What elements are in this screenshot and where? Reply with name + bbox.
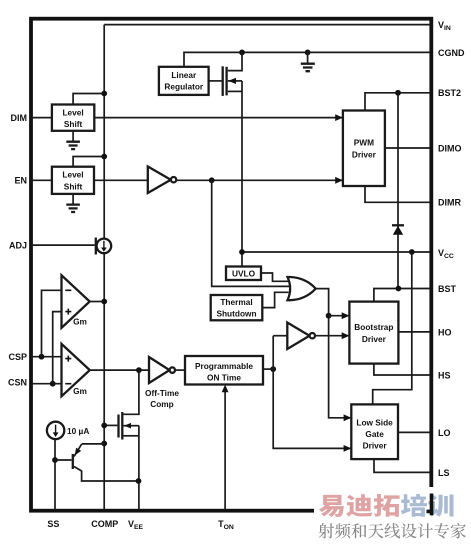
wire CSN	[31, 383, 62, 385]
block Low Side Gate Driver	[351, 404, 398, 459]
wire CGND line	[184, 52, 430, 67]
block U1 Linear Regulator	[159, 67, 209, 95]
arrowhead LowSide input 2	[344, 445, 352, 452]
svg-text:ON Time: ON Time	[207, 373, 241, 383]
watermark slogan	[319, 523, 466, 539]
transistor M2	[104, 370, 139, 509]
svg-text:Linear: Linear	[171, 70, 197, 80]
wire HS	[374, 364, 430, 375]
wire PON output	[263, 368, 273, 370]
svg-text:Shift: Shift	[64, 119, 83, 129]
arrowhead LowSide input 1	[344, 414, 352, 421]
gate OR1	[288, 277, 316, 300]
watermark background	[314, 487, 471, 544]
wire diode vertical	[397, 93, 399, 289]
watermark logo yiditapeixun	[319, 494, 454, 517]
wire ADJ line	[31, 244, 95, 246]
svg-text:BST: BST	[438, 284, 457, 294]
wire DIM line	[31, 117, 342, 119]
arrowhead PWM input 2	[335, 177, 343, 184]
wire CSP to Gm1 minus	[42, 290, 62, 356]
wire UVLO to OR	[261, 273, 289, 281]
wire inverter U3 output	[315, 335, 349, 337]
wire LS1 top loop	[73, 94, 104, 105]
block PWM Driver	[343, 111, 385, 187]
wire CSN to Gm1 plus	[53, 312, 62, 384]
wire Thermal to OR	[262, 292, 288, 307]
svg-text:UVLO: UVLO	[232, 269, 256, 279]
op-amp Gm2	[62, 344, 90, 396]
svg-text:Off-Time: Off-Time	[145, 388, 179, 398]
wire inverter U3 input	[273, 335, 287, 337]
svg-text:Bootstrap: Bootstrap	[354, 322, 393, 332]
node BST2-diode	[395, 90, 401, 96]
wire VCC line	[242, 251, 430, 253]
block Programmable ON Time	[185, 356, 263, 385]
node CSN branch	[50, 381, 56, 387]
wire LS	[374, 459, 430, 472]
wire PON branch vertical	[273, 336, 351, 449]
node gate-COMP	[101, 423, 107, 429]
wire VCC to LowSide	[373, 252, 412, 404]
node OR-bootstrap branch	[326, 313, 332, 319]
svg-text:PWM: PWM	[354, 138, 374, 148]
svg-text:Gate: Gate	[365, 429, 384, 439]
svg-text:CSN: CSN	[8, 377, 27, 387]
wire EN line	[31, 179, 148, 181]
svg-text:Comp: Comp	[150, 399, 174, 409]
frame corner at watermark	[427, 494, 434, 516]
wire DIMR	[365, 186, 430, 202]
wire Gm2 output	[90, 369, 149, 371]
wire VIN top line	[104, 24, 430, 26]
svg-text:10 µA: 10 µA	[67, 426, 89, 436]
wire BST	[374, 289, 430, 302]
node Gm1-COMP	[101, 299, 107, 305]
svg-text:Level: Level	[62, 170, 83, 180]
wire CSP	[31, 356, 62, 358]
svg-text:Level: Level	[62, 107, 83, 117]
svg-text:EN: EN	[14, 176, 27, 186]
op-amp Gm1	[62, 275, 90, 328]
node emitter-COMP	[101, 441, 107, 447]
svg-text:CGND: CGND	[438, 48, 465, 58]
svg-text:Regulator: Regulator	[164, 82, 203, 92]
wire to bootstrap input1	[329, 315, 349, 317]
node Gm2-mosfet branch	[136, 367, 142, 373]
svg-text:DIM: DIM	[11, 113, 28, 123]
node EN branch	[209, 177, 215, 183]
svg-text:Driver: Driver	[363, 441, 388, 451]
wire OR output	[316, 289, 351, 418]
svg-text:HO: HO	[438, 327, 452, 337]
wire VIN bus vertical	[103, 25, 105, 510]
arrowhead Bootstrap input 2	[342, 332, 350, 339]
resistor-free: transistor M1 pass PMOS	[209, 52, 242, 266]
wire BST2	[365, 93, 430, 111]
svg-text:LS: LS	[438, 468, 450, 478]
svg-text:DIMR: DIMR	[438, 198, 461, 208]
wire LS2 top loop	[73, 157, 104, 167]
current source 10uA	[47, 422, 89, 439]
wire TON	[224, 392, 226, 510]
ground CGND	[301, 52, 315, 71]
block Thermal Shutdown	[211, 295, 263, 320]
svg-text:DIMO: DIMO	[438, 144, 462, 154]
svg-text:Gm: Gm	[73, 386, 87, 396]
wire HO	[398, 331, 430, 333]
node SS-base	[52, 457, 58, 463]
node CGND-drain junction	[239, 50, 245, 56]
node LS1-bus	[101, 91, 107, 97]
svg-text:LO: LO	[438, 428, 451, 438]
wire SS	[54, 439, 56, 509]
ground LS1	[66, 131, 80, 149]
svg-text:HS: HS	[438, 370, 451, 380]
frame border	[31, 19, 431, 511]
node PON branch	[270, 366, 276, 372]
svg-text:BST2: BST2	[438, 88, 461, 98]
svg-text:Driver: Driver	[352, 150, 377, 160]
node VCC-UVLO	[239, 249, 245, 255]
arrowhead PWM input 1	[335, 114, 343, 121]
block UVLO	[226, 267, 261, 281]
node CGND-ground junction	[305, 50, 311, 56]
svg-text:Thermal: Thermal	[220, 297, 252, 307]
node VCC-driver branch	[409, 249, 415, 255]
svg-text:Shift: Shift	[64, 181, 83, 191]
block Level Shift 1	[52, 105, 94, 131]
svg-text:Low Side: Low Side	[356, 417, 393, 427]
svg-text:ADJ: ADJ	[9, 240, 27, 250]
arrowhead Bootstrap input 1	[342, 312, 350, 319]
wire EN inverter output	[176, 179, 342, 181]
block Bootstrap Driver	[349, 302, 398, 364]
transistor Q1 PNP	[55, 444, 139, 481]
svg-text:Gm: Gm	[73, 317, 87, 327]
wire Gm1 output	[90, 301, 105, 303]
diode D1	[392, 225, 404, 235]
wire LO	[398, 431, 430, 433]
inverter EN buffer	[148, 167, 177, 194]
ground LS2	[66, 194, 80, 212]
block Level Shift 2	[52, 167, 94, 194]
wire OffTime output	[175, 369, 185, 371]
wire DIMO	[385, 147, 430, 149]
node CSP branch	[39, 354, 45, 360]
svg-text:COMP: COMP	[91, 519, 118, 529]
svg-text:Driver: Driver	[362, 334, 387, 344]
inverter U3	[287, 323, 315, 350]
svg-text:Shutdown: Shutdown	[216, 308, 256, 318]
node LS2-bus	[101, 154, 107, 160]
current source I-ADJ	[96, 238, 111, 255]
svg-text:SS: SS	[47, 519, 59, 529]
svg-text:Programmable: Programmable	[195, 361, 253, 371]
arrowhead TON up	[222, 385, 229, 393]
wire EN to OR gate	[212, 180, 290, 286]
node collector-VEE	[136, 478, 142, 484]
comparator Off-Time Comp	[145, 357, 179, 409]
node BST-diode	[396, 286, 402, 292]
svg-text:CSP: CSP	[8, 352, 27, 362]
